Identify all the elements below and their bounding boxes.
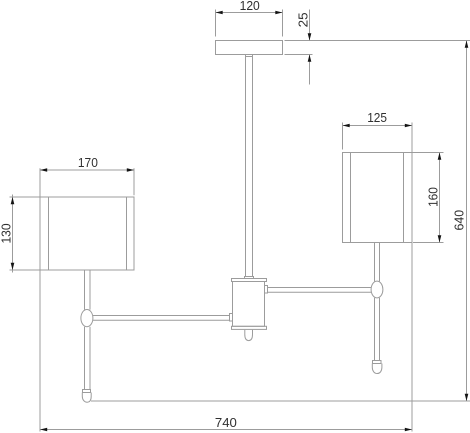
dim 160 extension bottom [413, 242, 444, 244]
arrow 130 bottom (down) [11, 263, 15, 270]
left lamp shade [40, 197, 134, 270]
left stem upper [85, 270, 91, 310]
central stem wire [246, 55, 253, 277]
dim 120 line [216, 12, 283, 14]
hub bottom flange [232, 326, 267, 329]
dim 25 extension top (also 640 top) [285, 40, 470, 42]
left arm wire [93, 316, 230, 321]
dim 160 line [439, 153, 441, 243]
left arm nub [230, 314, 233, 322]
hub top flange [232, 279, 267, 282]
left finial bulb [82, 393, 91, 403]
svg-text:170: 170 [78, 155, 98, 170]
dim 170 extension right [133, 168, 135, 195]
arrow 170 right [127, 168, 134, 172]
right arm wire [268, 288, 372, 293]
right stem lower [375, 298, 380, 361]
arrow 130 top (up) [11, 197, 15, 204]
arrow 125 left [343, 124, 350, 128]
right ball joint [371, 281, 383, 298]
dim 25 line [309, 10, 311, 41]
svg-text:160: 160 [425, 187, 440, 207]
dim 640 bottom extension [91, 400, 470, 402]
svg-text:130: 130 [0, 224, 13, 244]
svg-text:740: 740 [215, 415, 237, 430]
long extension line right (125/740) [411, 123, 413, 432]
right arm nub [265, 286, 268, 294]
dim 125 line [343, 125, 413, 127]
right stem upper [375, 243, 380, 282]
arrow 25 bottom (up) [308, 55, 312, 62]
arrow 640 top (up) [465, 41, 469, 48]
arrow 120 right [275, 11, 282, 15]
dim 125 extension left [342, 123, 344, 150]
arrow 640 bottom (down) [465, 394, 469, 401]
hub body [233, 282, 265, 327]
dim 25 extension bottom [285, 54, 313, 56]
svg-text:25: 25 [295, 12, 310, 27]
canopy (ceiling plate) [216, 41, 283, 55]
arrow 25 top (down) [308, 33, 312, 40]
dim 740 line [40, 429, 412, 431]
arrow 125 right [405, 124, 412, 128]
svg-text:640: 640 [452, 210, 467, 231]
hub bottom finial [245, 330, 253, 341]
dim 130 extension top [10, 196, 41, 198]
right finial collar [373, 361, 382, 364]
arrow 120 left [216, 11, 223, 15]
central stem cap [245, 277, 254, 279]
right lamp shade [343, 153, 413, 243]
svg-text:120: 120 [240, 0, 260, 13]
arrow 160 bottom (down) [438, 235, 442, 242]
left finial collar [83, 390, 91, 393]
arrow 740 right [405, 428, 412, 432]
dim 170 line [40, 169, 134, 171]
arrow 740 left [40, 428, 47, 432]
arrow 170 left [40, 168, 47, 172]
left stem lower [85, 327, 91, 390]
dim 130 line [12, 195, 14, 273]
dim 130 extension bottom [10, 269, 41, 271]
left ball joint [81, 310, 93, 327]
svg-text:125: 125 [367, 110, 387, 125]
long extension line left (170/740) [39, 168, 41, 431]
dim 640 line [466, 41, 468, 402]
arrow 160 top (up) [438, 153, 442, 160]
dim 160 extension top [412, 152, 444, 154]
right finial bulb [372, 364, 382, 374]
dim 120 extension lines [215, 10, 217, 37]
